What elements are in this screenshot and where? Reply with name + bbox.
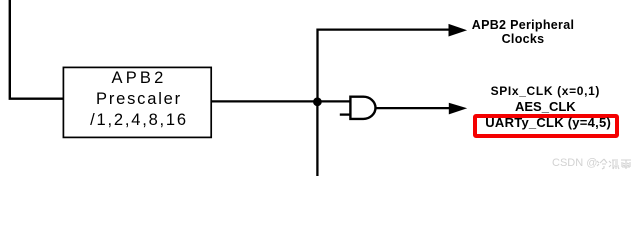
net label APB2 Peripheral Clocks	[448, 18, 598, 47]
net label SPIx_CLK	[491, 84, 600, 98]
arrowhead peripheral clocks	[449, 103, 467, 115]
APB2 prescaler block	[63, 67, 211, 137]
net label AES_CLK	[515, 99, 576, 114]
APB2 prescaler block label	[65, 67, 213, 131]
wire AND gate output	[375, 107, 450, 109]
node junction dot	[313, 97, 322, 106]
AND gate clock gating	[340, 97, 376, 119]
wire APB2 prescaler output to junction and AND gate input	[211, 100, 350, 102]
highlight box around UARTy_CLK	[473, 114, 619, 138]
wire branch up to APB2 peripheral clocks arrow	[318, 30, 450, 102]
net label UARTy_CLK	[485, 115, 611, 130]
wire input from top-left	[10, 0, 64, 99]
watermark CSDN	[552, 157, 597, 169]
wire branch down (cut off at bottom edge)	[316, 101, 318, 176]
watermark CJK glyphs (drawn)	[596, 158, 632, 171]
arrowhead APB2 peripheral clocks	[449, 24, 468, 37]
